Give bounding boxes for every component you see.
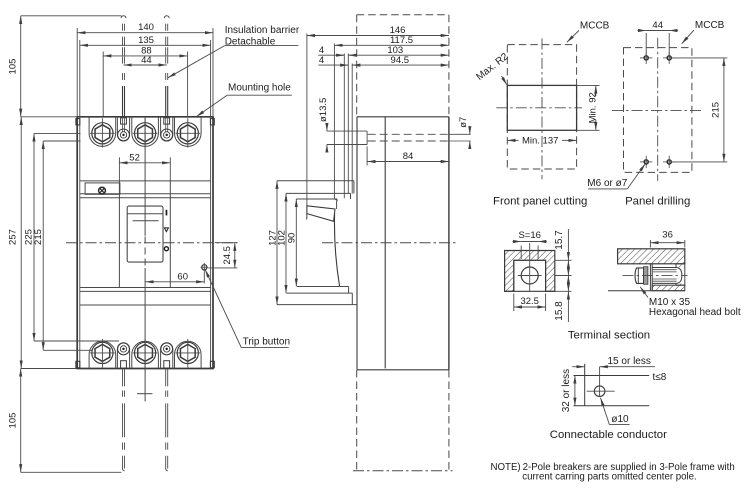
terminal nut block hatched — [505, 251, 555, 292]
terminal pole 3 bottom — [175, 341, 202, 368]
svg-text:Panel drilling: Panel drilling — [625, 196, 690, 208]
dim 32.5 — [513, 294, 515, 312]
svg-text:84: 84 — [403, 151, 414, 162]
label M10x35 — [640, 287, 648, 298]
svg-text:90: 90 — [287, 233, 298, 244]
dim 88 — [102, 52, 104, 117]
barrier screw A bottom — [117, 343, 129, 369]
dim 15 or less — [572, 366, 585, 368]
dim 84 — [366, 147, 368, 166]
svg-text:Front panel cutting: Front panel cutting — [493, 196, 587, 208]
dim 44 — [124, 64, 167, 66]
dim 102 — [285, 193, 287, 293]
dim 215 — [673, 57, 728, 59]
horizontal centerline — [66, 242, 238, 244]
body inner side lines — [79, 117, 81, 369]
front view MCCB body outline — [76, 117, 78, 369]
dim 32 or less — [574, 376, 576, 406]
svg-text:t≤8: t≤8 — [653, 372, 667, 383]
centerlines — [541, 39, 543, 180]
dim 105 top — [21, 15, 122, 17]
dim 15.7 / 15.8 — [555, 259, 572, 261]
dim Min. 92 — [577, 84, 600, 86]
dim 24.5 — [215, 242, 238, 244]
svg-text:Terminal section: Terminal section — [568, 330, 650, 342]
cover bottom steps — [297, 286, 349, 288]
side centerline — [322, 242, 458, 244]
front panel cutting: cutout rect — [507, 85, 576, 130]
drill hole bottom-left — [640, 161, 652, 163]
washer face double line — [649, 264, 651, 291]
drill hole top-left — [640, 57, 652, 59]
dim 52 — [118, 157, 120, 181]
bolt head — [635, 268, 644, 284]
dim 140 — [76, 28, 78, 116]
svg-text:ø13.5: ø13.5 — [318, 98, 329, 122]
bolt section: hatched bar — [618, 249, 685, 264]
nameplate screw — [99, 187, 106, 194]
svg-text:52: 52 — [129, 152, 140, 163]
insulation barrier wire right top — [164, 16, 169, 18]
conductor hole — [594, 386, 605, 397]
dim 127 — [276, 181, 278, 305]
svg-text:215: 215 — [711, 102, 722, 118]
side view: dashed barrier box top — [357, 14, 449, 16]
cover front curve — [334, 214, 339, 287]
nameplate — [85, 183, 120, 194]
dim 117.5 — [334, 44, 449, 46]
dim 60 — [203, 271, 205, 283]
side view: dashed cover box bottom — [356, 370, 358, 471]
svg-text:105: 105 — [8, 413, 19, 429]
terminal pole 1 top — [89, 117, 116, 146]
dim 105 bottom — [21, 368, 77, 370]
centerlines — [657, 38, 659, 181]
side view body — [357, 116, 449, 118]
handle grip line — [133, 220, 159, 222]
terminal recess + (hole 13.5) — [327, 130, 367, 132]
cover side lines (52 wide panel) — [118, 181, 120, 288]
dim o13.5 — [326, 124, 328, 132]
dim o7 — [469, 127, 471, 135]
ON mark I — [166, 210, 168, 216]
svg-text:15.7: 15.7 — [554, 230, 565, 250]
hole o7 dashed — [368, 133, 449, 135]
svg-text:140: 140 — [138, 22, 154, 33]
panel drilling: dashed outline — [624, 48, 692, 173]
terminal pole 2 top — [132, 117, 159, 146]
svg-text:MCCB: MCCB — [580, 21, 610, 32]
barrier screw A top — [117, 117, 129, 141]
barrier screw B bottom — [161, 343, 173, 369]
mounting notch bottom-right — [210, 361, 214, 368]
svg-text:ø7: ø7 — [458, 117, 469, 128]
svg-text:S=16: S=16 — [518, 230, 540, 241]
OFF mark O — [164, 247, 168, 251]
svg-text:Connectable conductor: Connectable conductor — [550, 429, 667, 441]
reset mark triangle — [164, 228, 168, 232]
handle window — [127, 206, 163, 262]
dim 215 — [43, 140, 80, 142]
svg-text:32 or less: 32 or less — [561, 369, 572, 412]
dim 90 — [295, 199, 297, 287]
svg-text:105: 105 — [8, 59, 19, 75]
bolt end in hole — [675, 268, 684, 284]
barrier screw B top — [161, 117, 173, 141]
svg-text:44: 44 — [652, 20, 663, 31]
svg-text:Min. 92: Min. 92 — [587, 92, 598, 123]
svg-text:Trip button: Trip button — [243, 337, 290, 348]
svg-text:Insulation barrier: Insulation barrier — [225, 25, 300, 36]
dim 257 — [20, 117, 22, 369]
svg-text:Hexagonal head bolt: Hexagonal head bolt — [649, 307, 741, 318]
dim 36 — [649, 240, 651, 248]
terminal pole 2 bottom — [132, 341, 159, 368]
svg-text:60: 60 — [177, 271, 188, 282]
front cover horizontal lines — [80, 180, 211, 182]
drill hole top-right — [663, 57, 675, 59]
svg-text:current carring parts omitted: current carring parts omitted center pol… — [522, 472, 696, 483]
mounting notch bottom-left — [76, 361, 80, 368]
dim 94.5 + 4 — [318, 64, 348, 66]
svg-text:135: 135 — [138, 35, 154, 46]
svg-text:Min. 137: Min. 137 — [522, 136, 558, 147]
cover top staircase — [277, 180, 354, 182]
svg-text:24.5: 24.5 — [222, 246, 233, 264]
svg-text:Mounting hole: Mounting hole — [228, 83, 291, 94]
barrier wire right bottom — [165, 369, 167, 386]
centerline below body with cross tick — [144, 369, 146, 402]
front panel cutting: MCCB dashed outline — [507, 45, 576, 169]
hatched bottom strip — [652, 285, 685, 291]
nut circle — [521, 267, 538, 284]
washer grey — [644, 267, 648, 285]
svg-text:15.8: 15.8 — [554, 301, 565, 321]
conductor plate lines — [574, 375, 650, 377]
barrier wire left bottom — [122, 369, 124, 386]
dim S=16 — [520, 246, 522, 260]
bolt shaft with threads — [652, 267, 676, 269]
svg-text:94.5: 94.5 — [391, 55, 410, 66]
base line — [608, 290, 685, 292]
mounting notch top-right — [210, 119, 214, 125]
hatched right column — [676, 264, 685, 285]
terminal pole 3 top — [175, 117, 202, 146]
dim Min. 137 — [507, 139, 518, 141]
dim 135 — [79, 40, 81, 116]
mounting notch top-left — [76, 119, 80, 125]
dim 44 — [645, 33, 647, 55]
trip button — [202, 265, 207, 270]
svg-text:215: 215 — [33, 229, 44, 245]
terminal pole 1 bottom — [89, 341, 116, 368]
inner recess outline — [513, 260, 515, 291]
svg-text:257: 257 — [8, 229, 19, 245]
label o10 — [609, 424, 629, 426]
dim 225 — [34, 132, 81, 134]
svg-text:4: 4 — [319, 55, 324, 66]
dim 103 + 4 — [318, 54, 344, 56]
bolt centerline — [623, 275, 688, 277]
pole centerline vertical — [144, 117, 146, 236]
handle side view — [307, 206, 335, 222]
drill hole bottom-right — [663, 161, 675, 163]
svg-text:15 or less: 15 or less — [608, 356, 651, 367]
svg-text:32.5: 32.5 — [520, 296, 539, 307]
svg-text:ø10: ø10 — [611, 414, 629, 425]
dim 146 — [307, 35, 449, 37]
svg-text:36: 36 — [662, 230, 673, 241]
svg-text:44: 44 — [141, 55, 152, 66]
svg-text:M6 or ø7: M6 or ø7 — [587, 178, 627, 189]
svg-text:MCCB: MCCB — [695, 20, 725, 31]
insulation barrier wire left top — [121, 16, 126, 18]
escutcheon layer lines — [306, 34, 308, 206]
